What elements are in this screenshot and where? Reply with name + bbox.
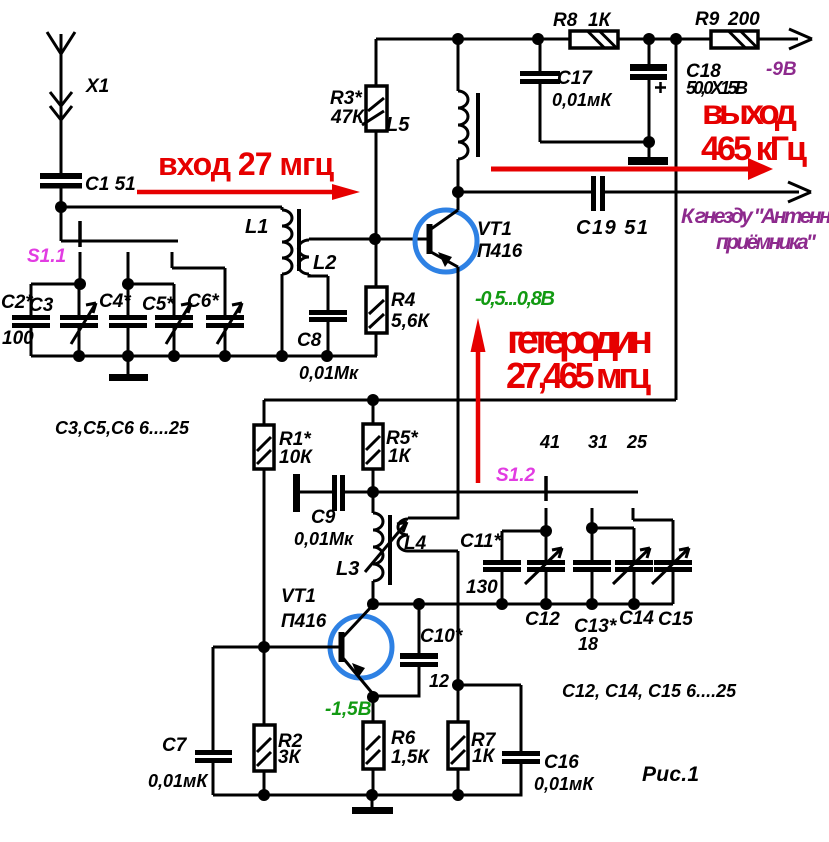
switch S1.1 [27, 221, 80, 267]
svg-text:R8: R8 [553, 10, 578, 31]
svg-text:C15: C15 [658, 609, 693, 630]
svg-text:130: 130 [466, 577, 498, 598]
svg-text:S1.2: S1.2 [496, 465, 536, 486]
node C3 top [74, 278, 86, 290]
wire S1.2 contact 3 [633, 508, 673, 560]
svg-text:X1: X1 [85, 76, 109, 97]
svg-text:C6*: C6* [187, 291, 220, 312]
ground bottom [352, 795, 393, 814]
svg-text:C8: C8 [297, 330, 322, 351]
svg-text:0,01Мк: 0,01Мк [299, 363, 359, 383]
node bus L1 [276, 350, 288, 362]
wire output arrow [788, 182, 811, 202]
antenna X1 [47, 32, 109, 173]
node C17-C18 [643, 136, 655, 148]
svg-text:C4*: C4* [99, 291, 132, 312]
node bus R2 [258, 789, 270, 801]
svg-text:12: 12 [429, 671, 449, 691]
node bus C8 [321, 350, 333, 362]
svg-text:R6: R6 [391, 728, 416, 749]
node oscillator top [367, 486, 379, 498]
svg-text:C11*: C11* [460, 531, 502, 552]
resistor R5 [363, 400, 419, 492]
svg-text:L1: L1 [245, 216, 268, 238]
svg-text:0,01мК: 0,01мК [148, 771, 209, 791]
node tank L3 [367, 598, 379, 610]
svg-text:C5*: C5* [142, 294, 175, 315]
svg-text:1,5К: 1,5К [391, 747, 430, 768]
node collector VT1 [452, 186, 464, 198]
svg-text:1К: 1К [472, 746, 496, 767]
wire [61, 188, 282, 241]
node bus C5 [168, 350, 180, 362]
capacitor C12 [525, 548, 565, 630]
capacitor C15 [652, 548, 693, 630]
svg-text:R4: R4 [391, 290, 416, 311]
inductor L1 [245, 207, 292, 356]
ground C18 [628, 157, 668, 165]
wire top rail [376, 38, 798, 41]
wire bottom bus [213, 794, 521, 797]
svg-text:10К: 10К [279, 447, 313, 468]
svg-text:VT1: VT1 [281, 586, 316, 607]
transistor VT1 top [415, 210, 523, 272]
svg-text:C16: C16 [544, 752, 579, 773]
node tank C13 [586, 598, 598, 610]
svg-text:Рис.1: Рис.1 [642, 763, 699, 786]
svg-text:C3: C3 [29, 295, 54, 316]
annotation arrow output [491, 93, 807, 180]
capacitor C7 [148, 647, 232, 795]
wire emitter VT1 [457, 267, 460, 492]
node rail output [670, 33, 682, 45]
svg-text:0,01мК: 0,01мК [552, 90, 613, 110]
svg-text:-1,5В: -1,5В [325, 699, 372, 720]
svg-text:VT1: VT1 [477, 219, 512, 240]
node rail L5 [452, 33, 464, 45]
capacitor C9 [293, 474, 373, 549]
resistor R7 [448, 685, 497, 795]
svg-text:C1 51: C1 51 [85, 174, 136, 195]
node bus C6 [219, 350, 231, 362]
svg-text:L3: L3 [336, 558, 359, 580]
node tank C14 [628, 598, 640, 610]
capacitor C17 [520, 39, 648, 142]
svg-text:C12: C12 [525, 609, 560, 630]
core adjust arrow L3 [365, 522, 407, 572]
node rail C17 [532, 33, 544, 45]
node emitter VT1 bottom [367, 691, 379, 703]
svg-text:приёмника": приёмника" [716, 231, 817, 254]
wire S1.1 contacts [80, 252, 225, 315]
svg-text:C19 51: C19 51 [576, 217, 648, 239]
wire base VT1 top [375, 238, 427, 241]
capacitor C4 [99, 284, 147, 356]
inductor L5 [386, 39, 468, 192]
svg-text:C14: C14 [619, 608, 654, 629]
capacitor C6 [187, 291, 244, 356]
svg-text:5,6К: 5,6К [391, 311, 430, 332]
label to antenna jack [681, 205, 829, 254]
node bus C4 [122, 350, 134, 362]
capacitor C2 [1, 292, 50, 356]
node bus R6 [366, 789, 378, 801]
core L1/L2 [297, 209, 301, 271]
svg-text:31: 31 [588, 432, 608, 452]
wire oscillator tank bus [372, 603, 673, 606]
labels switch positions [539, 432, 648, 452]
wire C11 link [502, 531, 546, 560]
node bus R7 [452, 789, 464, 801]
svg-text:41: 41 [539, 432, 560, 452]
svg-text:1К: 1К [388, 446, 412, 467]
resistor R8 [553, 10, 618, 48]
svg-text:вход 27 мгц: вход 27 мгц [158, 146, 334, 182]
resistor R9 [695, 9, 760, 48]
node C13 top [586, 522, 598, 534]
node base divider bottom [258, 641, 270, 653]
capacitor C11 [460, 531, 521, 604]
resistor R2 [254, 647, 303, 795]
svg-text:выход: выход [702, 93, 797, 132]
svg-text:100: 100 [2, 328, 34, 349]
svg-text:C7: C7 [162, 735, 188, 756]
capacitor C8 [297, 310, 359, 383]
capacitor C10 [373, 604, 464, 696]
transistor VT1 bottom [281, 586, 392, 694]
wire S1.2 contact 2 [591, 508, 594, 528]
wire rail arrow [789, 29, 812, 49]
wire S1.2 contact 1 [545, 508, 548, 531]
wire C2 link [31, 284, 80, 315]
svg-text:3К: 3К [278, 747, 302, 768]
svg-text:25: 25 [626, 432, 648, 452]
svg-text:L4: L4 [404, 533, 427, 554]
svg-text:0,01мК: 0,01мК [534, 774, 595, 794]
svg-text:C12, C14, C15 6....25: C12, C14, C15 6....25 [562, 681, 737, 701]
wire C12 riser [545, 531, 548, 560]
svg-text:-0,5...0,8В: -0,5...0,8В [475, 288, 555, 310]
node tank C11 [496, 598, 508, 610]
node rail C18 [643, 33, 655, 45]
svg-text:C17: C17 [557, 68, 593, 89]
wire bus top-left [31, 355, 377, 358]
node tank C12 [540, 598, 552, 610]
wire C4-C5 link [128, 284, 174, 315]
node tank C10 [413, 598, 425, 610]
svg-text:27,465 мгц: 27,465 мгц [506, 355, 651, 396]
svg-text:L5: L5 [386, 114, 410, 136]
resistor R6 [363, 697, 430, 795]
capacitor C1 [40, 173, 136, 195]
capacitor C18 electrolytic [630, 39, 748, 157]
node C12 top [540, 525, 552, 537]
node base divider [369, 233, 381, 245]
switch S1.2 [496, 465, 546, 501]
svg-text:0,01Мк: 0,01Мк [294, 529, 354, 549]
svg-text:П416: П416 [281, 611, 327, 632]
wire collector VT1 [457, 192, 460, 210]
svg-text:-9В: -9В [766, 59, 797, 80]
capacitor C19 [458, 176, 799, 239]
svg-text:C9: C9 [311, 507, 336, 528]
wire base VT1 bottom [213, 646, 339, 649]
svg-text:П416: П416 [477, 241, 523, 262]
svg-text:R9: R9 [695, 9, 720, 30]
node L4 return [452, 679, 464, 691]
svg-text:C3,C5,C6 6....25: C3,C5,C6 6....25 [55, 418, 190, 438]
capacitor C5 [142, 294, 193, 356]
svg-text:К гнезду "Антенна: К гнезду "Антенна [681, 205, 829, 228]
capacitor C13 [573, 560, 618, 654]
svg-text:465 кГц: 465 кГц [701, 130, 807, 168]
svg-text:18: 18 [578, 634, 598, 654]
capacitor C14 [613, 548, 654, 629]
core L3/L4 [388, 515, 392, 585]
ground [109, 356, 148, 381]
svg-text:C10*: C10* [420, 626, 464, 647]
svg-text:47К: 47К [330, 107, 365, 128]
svg-text:1К: 1К [588, 10, 612, 31]
wire supply to oscillator [264, 39, 676, 400]
node C1-S1.1 junction [55, 201, 67, 213]
inductor L2 [298, 239, 375, 310]
core L5 [476, 93, 480, 157]
resistor R4 [366, 239, 430, 356]
wire S1.2 line [373, 491, 638, 494]
svg-text:200: 200 [727, 9, 760, 30]
node bus C3 [73, 350, 85, 362]
svg-text:L2: L2 [313, 252, 336, 274]
node supply R5 [367, 394, 379, 406]
capacitor C16 [458, 685, 595, 795]
annotation arrow input [137, 146, 360, 200]
svg-text:R3*: R3* [330, 88, 363, 109]
node C4 top [122, 278, 134, 290]
capacitor C3 [29, 284, 98, 356]
svg-text:S1.1: S1.1 [27, 246, 66, 267]
inductor L3 [336, 492, 383, 604]
annotation arrow heterodyne [471, 318, 654, 483]
resistor R1 [254, 400, 313, 647]
wire C14 link [592, 528, 634, 560]
resistor R3 [330, 39, 387, 239]
inductor L4 [398, 492, 458, 685]
